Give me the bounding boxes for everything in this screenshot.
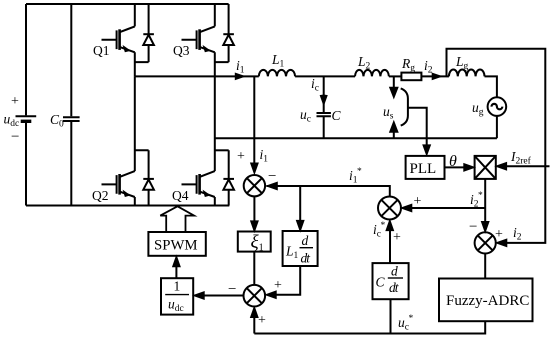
wire node to Lg (447, 75, 449, 77)
svg-text:ug: ug (472, 100, 484, 118)
wire ug to return (496, 116, 498, 138)
svg-text:i1: i1 (236, 58, 245, 76)
diode D3 (223, 4, 234, 62)
svg-text:+: + (237, 149, 245, 164)
svg-text:us: us (383, 104, 394, 122)
svg-text:1: 1 (174, 279, 181, 294)
svg-text:ξ1: ξ1 (251, 232, 264, 254)
arrow into PLL (423, 145, 431, 155)
capacitor C0 wires (70, 4, 72, 206)
wire i2 feedback loop (447, 49, 546, 243)
svg-text:dt: dt (389, 280, 400, 295)
arrow into J5 top (481, 222, 489, 233)
wire us tap to PLL (408, 108, 427, 146)
svg-text:Q2: Q2 (92, 188, 109, 203)
wire phase A output i1 line (135, 75, 259, 77)
wire Fuzzy-ADRC output uc* (254, 321, 485, 333)
capacitor C plates (317, 113, 331, 116)
svg-text:i2: i2 (513, 225, 522, 243)
wire xi1 to J3 (253, 252, 255, 285)
inductor Lg (449, 70, 485, 77)
svg-text:udc: udc (168, 297, 184, 315)
wire uc* up into J3 bottom (253, 316, 255, 334)
svg-text:−: − (228, 282, 236, 298)
capacitor C0 plates (63, 117, 80, 121)
wire I2ref input (505, 165, 550, 167)
svg-text:+: + (274, 278, 282, 293)
arrow into xi1 (251, 221, 259, 232)
arrow i1* into J1 (267, 182, 278, 190)
wire PLL to multiplier (445, 166, 466, 168)
svg-text:+: + (414, 194, 422, 209)
svg-text:Q3: Q3 (173, 43, 190, 58)
svg-text:uc: uc (300, 107, 311, 125)
diode D4 (223, 150, 234, 205)
arrow i2* into junction J2 (401, 204, 412, 212)
svg-text:d: d (302, 233, 309, 248)
wire Q3 collector (214, 4, 216, 26)
svg-text:ic: ic (311, 76, 319, 94)
svg-text:i1*: i1* (349, 167, 362, 186)
wire 1/udc to SPWM (175, 266, 177, 279)
svg-text:Q4: Q4 (172, 188, 189, 203)
arrow i1 on wire (235, 73, 244, 79)
svg-text:Rg: Rg (401, 56, 415, 74)
junction J1 (244, 175, 265, 196)
block L1 d/dt (283, 231, 318, 266)
battery Udc wires (25, 4, 27, 206)
wire J1 output to xi1 (253, 196, 255, 222)
arrow into 1/udc (193, 292, 204, 300)
svg-text:dt: dt (301, 251, 312, 266)
svg-text:−: − (268, 169, 276, 185)
diode D1 (143, 4, 154, 62)
diode D2 (143, 150, 154, 205)
wire Q4 emitter (214, 197, 216, 206)
multiplier box X (475, 156, 496, 179)
source ug circle (488, 97, 507, 116)
wire L1 d/dt to J3 (275, 266, 300, 295)
SPWM gate drive hollow arrow (160, 206, 194, 232)
inductor L2 (355, 70, 389, 77)
wire top DC rail (26, 3, 229, 5)
arrow i2 on wire (432, 73, 441, 79)
arrow I2ref into multiplier (496, 162, 507, 170)
transistor Q4 (182, 171, 215, 197)
svg-text:Lg: Lg (455, 54, 469, 72)
wire AC return line (215, 137, 497, 139)
block C d/dt (373, 263, 409, 299)
wire multiplier down to i2* node (484, 179, 486, 208)
wire i1 sense (253, 76, 255, 165)
wire C d/dt up to J2 (389, 230, 391, 264)
svg-text:udc: udc (4, 112, 20, 130)
wire Q4 collector jog (215, 149, 229, 151)
arrow i2 into junction J5 (496, 239, 507, 247)
arrow i1 into J1 top (251, 163, 259, 174)
label 1/udc (165, 279, 189, 315)
wire L1 to L2 (295, 75, 355, 77)
svg-text:θ: θ (449, 153, 457, 170)
wire uc* branch to C d/dt (390, 299, 392, 333)
svg-text:+: + (495, 227, 503, 242)
svg-text:SPWM: SPWM (154, 238, 198, 254)
svg-text:i1: i1 (260, 147, 269, 165)
inductor L1 (259, 70, 295, 77)
svg-text:L1: L1 (285, 244, 299, 262)
svg-text:L2: L2 (357, 54, 371, 72)
block 1/udc (161, 278, 193, 314)
svg-text:Q1: Q1 (93, 43, 110, 58)
arrow into L1 d/dt (296, 220, 304, 231)
svg-text:PLL: PLL (410, 161, 437, 177)
svg-text:−: − (469, 219, 477, 235)
transistor Q1 (102, 26, 135, 52)
wire Q1 emitter to phase A (135, 52, 149, 76)
svg-text:+: + (258, 313, 266, 328)
svg-text:uc*: uc* (398, 314, 413, 333)
junction J3 (244, 285, 266, 307)
us sensor curve (401, 88, 408, 125)
wire Q2 emitter (134, 197, 136, 206)
block xi1 (238, 232, 271, 252)
wire capacitor C branch (323, 76, 325, 138)
svg-text:L1: L1 (271, 52, 285, 70)
wire J5 to Fuzzy-ADRC (484, 254, 486, 279)
transistor Q2 (102, 171, 135, 197)
wire i2* branch left (411, 207, 486, 209)
arrow into J3 right (265, 291, 276, 299)
label L1 d/dt (285, 233, 313, 266)
svg-text:C0: C0 (50, 112, 64, 130)
svg-text:−: − (11, 129, 19, 145)
transistor Q3 (182, 26, 215, 52)
block Fuzzy-ADRC (439, 279, 533, 322)
arrow ic* into J2 bottom (386, 220, 394, 231)
wire J3 output left (203, 295, 244, 297)
svg-text:i2: i2 (424, 58, 433, 76)
svg-text:ic*: ic* (373, 221, 385, 240)
svg-text:C: C (332, 108, 342, 123)
arrow us down (390, 76, 397, 96)
arrow us up (390, 123, 397, 139)
svg-text:+: + (11, 94, 19, 109)
svg-text:+: + (393, 230, 401, 245)
battery Udc plates (16, 115, 37, 117)
wire Q3 emitter / phase B leg (215, 52, 229, 171)
junction J5 (475, 232, 496, 253)
PLL box (406, 156, 445, 179)
block SPWM (148, 232, 205, 256)
wire i2* down to J5 (484, 208, 486, 222)
svg-text:Fuzzy-ADRC: Fuzzy-ADRC (446, 293, 529, 309)
wire J2 output up and left (i1* line) (267, 186, 390, 197)
arrow into SPWM (173, 256, 181, 267)
arrow ic (320, 95, 327, 105)
wire Rg to grid node (421, 75, 446, 77)
wire Lg to source ug (485, 76, 497, 97)
resistor Rg (401, 73, 421, 81)
svg-text:i2*: i2* (470, 191, 483, 210)
label C d/dt (376, 264, 404, 296)
arrow into J3 bottom (251, 307, 259, 318)
junction J2 (378, 197, 401, 220)
wire L2 to Rg (389, 75, 402, 77)
arrow into multiplier (464, 164, 475, 172)
wire Q1 collector (134, 4, 136, 26)
wire branch to L1 d/dt (299, 186, 301, 222)
wire Q2 collector leg (135, 76, 149, 171)
svg-text:C: C (376, 275, 386, 290)
source ug sine (492, 104, 503, 109)
wire bottom DC rail (26, 205, 229, 207)
svg-text:I2ref: I2ref (510, 149, 532, 167)
svg-text:d: d (391, 264, 398, 279)
